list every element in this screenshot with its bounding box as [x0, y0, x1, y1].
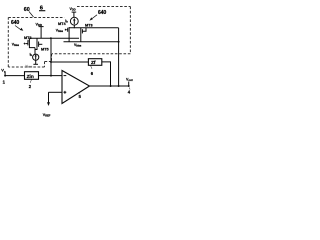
- svg-text:Vbias: Vbias: [74, 43, 82, 48]
- leader Zin to 2: [30, 79, 31, 83]
- svg-text:Vout: Vout: [126, 78, 133, 83]
- label 60: [24, 7, 30, 13]
- VDD label top: [70, 7, 76, 12]
- VDDR label: [26, 64, 33, 69]
- arrow Vbias to MT6 gate: [24, 43, 26, 45]
- feedback Zf wire right: [102, 62, 111, 86]
- Ib label right source: [65, 19, 68, 24]
- svg-text:MT4: MT4: [58, 22, 66, 26]
- transistor MT6 channel bar: [28, 38, 30, 46]
- svg-text:VDDR: VDDR: [26, 64, 33, 69]
- Vout node dot: [128, 85, 130, 87]
- VREF label: [43, 113, 51, 118]
- svg-text:Zin: Zin: [27, 74, 34, 80]
- leader from 60 to box: [29, 12, 34, 18]
- dashed box 640 raised top edge right part: [77, 6, 130, 8]
- wire VDD-left down to rail: [40, 27, 42, 39]
- dashed box 640 top edge left part: [8, 17, 64, 19]
- VDD-left terminal bar: [39, 26, 44, 28]
- leader op-amp to label 5: [79, 92, 81, 94]
- arrowhead down VREF: [47, 102, 50, 106]
- impedance Zin box: [25, 72, 39, 80]
- transistor MT3 gate bar: [81, 29, 83, 33]
- junction dot bias/Zf wire: [50, 61, 52, 63]
- svg-text:VDD: VDD: [70, 7, 76, 12]
- MT6 label: [24, 36, 32, 40]
- svg-text:640: 640: [98, 10, 107, 16]
- junction dot on left rail: [50, 37, 52, 39]
- left rail (tops of MT5/MT6): [29, 37, 79, 39]
- label 4: [128, 90, 131, 95]
- Vs terminal tick: [4, 72, 6, 76]
- bottom rail of MT4/MT3: [64, 41, 119, 43]
- transistor MT6 gate bar: [27, 40, 29, 45]
- arrow from 640 top-right: [92, 15, 98, 19]
- label 6: [91, 71, 94, 76]
- VDDR terminal bar: [33, 63, 38, 65]
- leader Vout to 4: [129, 88, 132, 90]
- Zf text: [91, 60, 96, 66]
- bias tap vertical line down to minus node: [50, 38, 52, 75]
- impedance Zf box: [88, 59, 101, 66]
- current source Ib right (circle): [70, 17, 78, 25]
- wire Zin to op-amp minus: [39, 75, 63, 77]
- svg-text:1: 1: [3, 80, 6, 85]
- transistor MT4 channel bar: [68, 27, 70, 33]
- wire current source to pair top node: [73, 25, 75, 28]
- svg-text:2: 2: [29, 84, 32, 89]
- Vbias label left of MT6: [12, 42, 20, 47]
- arrow inside right current source: [73, 20, 75, 25]
- leader MT6 label to symbol: [28, 40, 29, 42]
- Zin text: [27, 74, 34, 80]
- svg-text:Ib: Ib: [65, 19, 68, 24]
- VDD terminal bar: [72, 11, 77, 13]
- label 640 top-right: [98, 10, 107, 16]
- leader Zf to 6: [91, 65, 93, 68]
- transistor MT5 channel bar: [36, 41, 38, 48]
- svg-text:6: 6: [91, 71, 94, 76]
- svg-text:VREF: VREF: [43, 113, 51, 118]
- label 640 top-left: [11, 20, 20, 26]
- junction dot minus node: [50, 75, 52, 77]
- svg-text:MT3: MT3: [85, 24, 93, 28]
- dashed box bottom edge left part: [8, 66, 44, 68]
- junction dot bias/output: [118, 85, 120, 87]
- svg-text:Zf: Zf: [91, 60, 96, 66]
- Ib label left source: [30, 53, 33, 58]
- svg-text:Vbias: Vbias: [12, 42, 20, 47]
- transistor MT3 gate lead (diode connection): [82, 28, 86, 32]
- op-amp 5 triangle: [62, 71, 90, 104]
- transistor MT5 gate bar: [38, 42, 40, 47]
- Vs label: [1, 68, 6, 74]
- svg-text:Vbias: Vbias: [56, 29, 64, 34]
- dashed box step at x=51.5: [51, 54, 53, 62]
- arrow from 640 top-left: [15, 26, 21, 30]
- transistor MT3 source lead down: [80, 35, 82, 42]
- wire VDD to current source: [73, 12, 75, 17]
- dashed box bottom edge right part: [52, 53, 130, 55]
- svg-text:5: 5: [79, 94, 82, 99]
- dashed box step at x=44.5: [44, 62, 46, 68]
- Vbias label below rail: [74, 43, 82, 48]
- current source Ib left (circle): [33, 54, 39, 60]
- transistor MT5 top lead: [36, 38, 38, 40]
- transistor MT6 gate lead: [26, 43, 28, 45]
- VDD label left cluster: [36, 22, 42, 27]
- label 1: [3, 80, 6, 85]
- label 5 (op-amp): [79, 94, 82, 99]
- arrow inside left current source: [35, 55, 37, 59]
- arrow Vbias to MT4 gate: [65, 29, 67, 31]
- junction dot rail/bias line: [118, 41, 120, 43]
- transistor MT5 gate stub: [39, 43, 43, 45]
- output wire: [90, 85, 129, 87]
- svg-text:4: 4: [128, 90, 131, 95]
- junction dot Zf/output: [110, 85, 112, 87]
- transistor MT4 drain lead down: [68, 33, 70, 42]
- transistor MT3 channel bar: [80, 28, 82, 35]
- transistor MT4 gate lead: [67, 29, 68, 31]
- dashed box left edge: [7, 18, 9, 68]
- center column to lower current source: [34, 48, 36, 55]
- Vs node dot: [4, 75, 6, 77]
- wire plus input down: [48, 92, 50, 102]
- transistor MT5 bottom lead: [35, 48, 37, 50]
- transistor MT6 bottom lead: [29, 46, 35, 48]
- MT5 label: [41, 48, 49, 52]
- dashed box right edge: [129, 7, 131, 54]
- plus sign: [64, 91, 67, 94]
- figure number 6: [40, 5, 44, 11]
- Vbias label left of MT4: [56, 29, 64, 34]
- wire Vs to Zin: [5, 75, 24, 77]
- wire current source to VDDR terminal: [35, 60, 37, 64]
- bias vertical line to output: [118, 28, 120, 86]
- underline of figure 6: [39, 10, 45, 12]
- wire plus input: [49, 91, 63, 93]
- MT4 label: [58, 22, 66, 26]
- svg-text:640: 640: [11, 20, 20, 26]
- feedback Zf wire left: [51, 61, 88, 63]
- MT3 label: [85, 24, 93, 28]
- minus sign: [64, 75, 67, 77]
- svg-text:MT5: MT5: [41, 48, 49, 52]
- transistor MT4 gate bar: [67, 28, 69, 32]
- Vout terminal tick: [128, 82, 130, 87]
- dashed box bottom edge middle part: [45, 61, 52, 63]
- top node bar MT4-MT3: [69, 27, 119, 29]
- Vout label: [126, 78, 133, 83]
- svg-text:Ib: Ib: [30, 53, 33, 58]
- label 2: [29, 84, 32, 89]
